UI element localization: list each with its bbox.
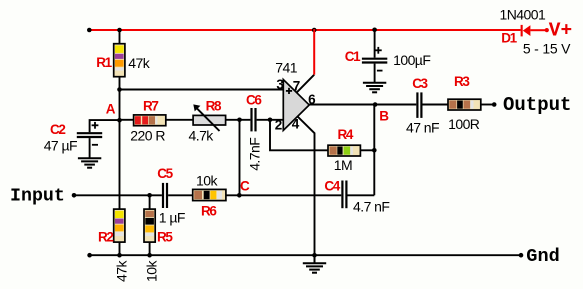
- svg-text:47 µF: 47 µF: [44, 138, 77, 154]
- op-amp plus sign: [286, 90, 292, 92]
- R8 arrow shaft: [196, 107, 220, 131]
- svg-text:47k: 47k: [128, 55, 150, 71]
- trimmer R8 body: [193, 115, 226, 125]
- wire R5 top lead: [149, 195, 151, 209]
- svg-text:Gnd: Gnd: [526, 246, 559, 267]
- C1 minus sign: [377, 70, 383, 72]
- junction R5 at ground rail: [147, 253, 152, 258]
- resistor R5 body: [144, 209, 155, 242]
- wire C4 right bar to feedback vertical: [348, 194, 375, 196]
- resistor R1 body: [114, 44, 125, 77]
- svg-text:100R: 100R: [448, 116, 480, 132]
- junction R4 right: [372, 148, 377, 153]
- capacitor C6 bars: [250, 108, 252, 131]
- pin7 wire black diagonal: [297, 75, 315, 93]
- pin7 wire red vertical to rail: [313, 29, 315, 75]
- V+ terminal dot (red): [545, 28, 549, 32]
- wire pin2 junction down to R4 left: [270, 120, 328, 151]
- svg-text:R5: R5: [157, 229, 173, 244]
- ground (C2): [78, 158, 101, 168]
- node C junction: [237, 193, 242, 198]
- wire R1 top lead: [119, 30, 121, 44]
- svg-text:4.7 nF: 4.7 nF: [353, 199, 389, 215]
- wire R5 bottom lead: [149, 242, 151, 255]
- C1 stem from rail: [374, 30, 376, 58]
- output terminal dot: [492, 102, 497, 107]
- junction R5/C5: [147, 193, 152, 198]
- input wire to C5: [74, 194, 162, 196]
- svg-text:C3: C3: [412, 76, 428, 91]
- svg-text:47k: 47k: [114, 260, 130, 282]
- svg-text:R4: R4: [338, 127, 354, 142]
- C2 plus sign: [92, 124, 99, 126]
- svg-text:C5: C5: [157, 166, 173, 181]
- capacitor C1 (electrolytic) plates: [362, 58, 387, 60]
- C1 plus sign: [375, 49, 382, 51]
- capacitor C3 bars: [416, 92, 418, 118]
- node B junction: [373, 102, 378, 107]
- diode D1 cathode bar: [521, 25, 523, 37]
- resistor R4 body: [328, 145, 360, 156]
- junction: R1 top at V+ rail: [117, 28, 122, 33]
- wire R7 to R8: [166, 119, 193, 121]
- junction right of C6: [268, 118, 273, 123]
- ground (C1): [363, 83, 386, 93]
- wire diode to V+ (red): [530, 29, 545, 31]
- svg-text:R1: R1: [96, 55, 112, 70]
- wire vertical bus R1 bottom to R2 top: [119, 77, 121, 210]
- resistor R3 body: [448, 99, 481, 110]
- R8 arrow head: [193, 104, 200, 111]
- Gnd terminal dot: [519, 253, 524, 258]
- resistor R6 body: [193, 189, 226, 200]
- svg-text:10k: 10k: [196, 173, 218, 189]
- junction left of C6: [237, 118, 242, 123]
- capacitor C2 (electrolytic) plates: [77, 132, 102, 134]
- wire R8 to C6 junction: [226, 119, 251, 121]
- capacitor C5 bars: [162, 183, 164, 208]
- svg-text:3: 3: [276, 77, 284, 92]
- svg-text:R2: R2: [98, 229, 113, 244]
- wire node A to C2: [90, 120, 120, 132]
- wire R2 bottom lead: [119, 242, 121, 255]
- wire R6 to node C and on to C4: [226, 194, 341, 196]
- node A junction: [117, 118, 122, 123]
- svg-text:R8: R8: [206, 98, 222, 113]
- svg-text:Input: Input: [10, 187, 65, 207]
- pin4 wire diagonal and vertical to ground rail: [297, 116, 314, 255]
- svg-text:R3: R3: [454, 74, 470, 89]
- ground symbol (main): [303, 255, 326, 273]
- svg-text:C4: C4: [324, 179, 340, 194]
- resistor R2 body: [114, 209, 125, 242]
- junction: pin7 wire at V+ rail: [312, 28, 317, 33]
- svg-text:5 - 15 V: 5 - 15 V: [523, 41, 571, 57]
- svg-text:Output: Output: [503, 94, 571, 116]
- input terminal dot: [72, 193, 77, 198]
- feedback vertical node B to C4 row: [373, 105, 375, 196]
- wire C6 to pin2 junction: [257, 119, 284, 121]
- wire C1 to ground: [374, 64, 376, 83]
- svg-text:2: 2: [275, 117, 283, 132]
- wire node A to R7: [120, 119, 134, 121]
- C2 minus sign: [92, 144, 98, 146]
- svg-text:R7: R7: [143, 98, 158, 113]
- junction: pin3 wire at bus: [117, 87, 122, 92]
- svg-text:4.7k: 4.7k: [189, 127, 215, 143]
- wire C2 to ground: [89, 138, 91, 158]
- wire C3 to R3: [423, 104, 449, 106]
- ground rail: [90, 254, 521, 256]
- output wire from op-amp: [308, 104, 416, 106]
- svg-text:1N4001: 1N4001: [500, 7, 547, 23]
- svg-text:D1: D1: [501, 31, 517, 46]
- diode D1 triangle: [523, 25, 531, 36]
- wire C5 to R6: [168, 194, 193, 196]
- junction: C1 at V+ rail: [372, 28, 377, 33]
- wire R3 right lead: [481, 104, 494, 106]
- svg-text:R6: R6: [201, 204, 217, 219]
- wire junction down to node C: [239, 120, 241, 196]
- svg-text:47 nF: 47 nF: [406, 119, 439, 135]
- svg-text:1M: 1M: [334, 157, 352, 173]
- svg-text:100µF: 100µF: [393, 52, 430, 68]
- resistor R7 body: [134, 115, 166, 126]
- svg-text:10k: 10k: [143, 260, 159, 282]
- op-amp U1 741 triangle: [283, 80, 309, 131]
- svg-text:C1: C1: [345, 49, 361, 64]
- wire pin3 line: [120, 89, 284, 91]
- junction pin4 at ground rail: [312, 253, 317, 258]
- svg-text:C2: C2: [50, 122, 65, 137]
- capacitor C4 bars: [341, 181, 343, 209]
- svg-text:V+: V+: [549, 20, 572, 42]
- svg-text:C6: C6: [246, 92, 262, 107]
- svg-text:220 R: 220 R: [130, 127, 165, 143]
- svg-text:741: 741: [275, 60, 297, 76]
- junction R2 at ground rail: [117, 253, 122, 258]
- svg-text:4.7nF: 4.7nF: [247, 138, 263, 171]
- V+ rail (red): [89, 29, 520, 31]
- wire R4 right lead: [360, 149, 374, 151]
- svg-text:1 µF: 1 µF: [159, 209, 185, 225]
- rail left endpoint dot: [87, 253, 92, 258]
- rail left endpoint dot: [87, 28, 92, 33]
- svg-text:4: 4: [292, 117, 300, 132]
